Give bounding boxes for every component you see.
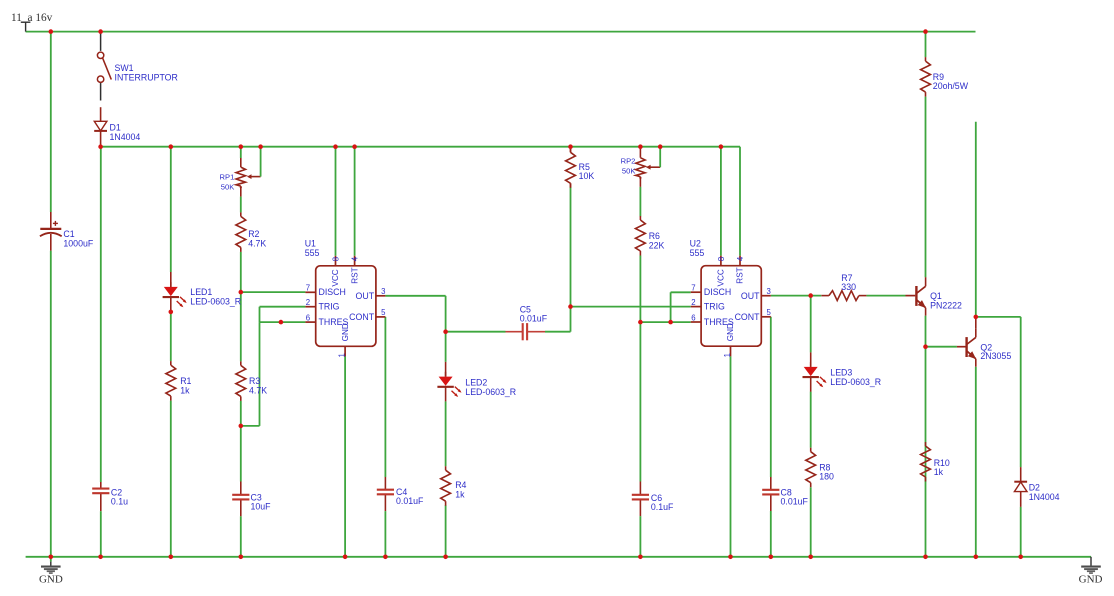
svg-text:R1: R1 bbox=[180, 376, 191, 386]
svg-text:LED1: LED1 bbox=[190, 287, 212, 297]
svg-text:555: 555 bbox=[305, 248, 320, 258]
svg-text:10K: 10K bbox=[579, 171, 595, 181]
svg-text:CONT: CONT bbox=[349, 312, 375, 322]
svg-text:0.01uF: 0.01uF bbox=[520, 314, 548, 324]
svg-text:TRIG: TRIG bbox=[704, 302, 725, 312]
svg-text:330: 330 bbox=[841, 282, 856, 292]
svg-text:RST: RST bbox=[350, 267, 359, 283]
svg-text:R3: R3 bbox=[249, 376, 260, 386]
svg-text:1: 1 bbox=[337, 353, 346, 357]
svg-text:INTERRUPTOR: INTERRUPTOR bbox=[115, 73, 178, 83]
svg-text:8: 8 bbox=[717, 257, 726, 261]
svg-text:RST: RST bbox=[736, 267, 745, 283]
svg-text:50K: 50K bbox=[221, 183, 235, 192]
svg-text:7: 7 bbox=[691, 284, 695, 293]
svg-text:0.1uF: 0.1uF bbox=[651, 502, 674, 512]
svg-text:6: 6 bbox=[691, 313, 695, 322]
svg-text:VCC: VCC bbox=[331, 269, 340, 286]
svg-text:4: 4 bbox=[736, 256, 745, 261]
svg-text:1N4004: 1N4004 bbox=[1029, 492, 1060, 502]
svg-text:PN2222: PN2222 bbox=[930, 300, 962, 310]
svg-text:2N3055: 2N3055 bbox=[980, 351, 1011, 361]
svg-text:R4: R4 bbox=[455, 480, 466, 490]
svg-text:DISCH: DISCH bbox=[319, 287, 346, 297]
svg-text:2: 2 bbox=[691, 298, 695, 307]
svg-text:GND: GND bbox=[39, 574, 63, 586]
svg-text:1k: 1k bbox=[180, 386, 190, 396]
svg-text:7: 7 bbox=[306, 284, 310, 293]
svg-text:1k: 1k bbox=[455, 489, 465, 499]
svg-text:8: 8 bbox=[331, 257, 340, 261]
svg-text:D1: D1 bbox=[110, 122, 121, 132]
svg-text:0.01uF: 0.01uF bbox=[396, 496, 424, 506]
svg-text:CONT: CONT bbox=[735, 312, 761, 322]
svg-text:4: 4 bbox=[351, 256, 360, 261]
svg-text:RP2: RP2 bbox=[621, 157, 636, 166]
svg-text:LED-0603_R: LED-0603_R bbox=[830, 377, 881, 387]
svg-text:3: 3 bbox=[381, 287, 385, 296]
svg-text:50K: 50K bbox=[622, 167, 636, 176]
svg-text:4.7K: 4.7K bbox=[248, 239, 266, 249]
svg-text:180: 180 bbox=[819, 472, 834, 482]
svg-text:5: 5 bbox=[767, 308, 772, 317]
svg-text:R2: R2 bbox=[248, 229, 259, 239]
svg-text:DISCH: DISCH bbox=[704, 287, 731, 297]
svg-text:VCC: VCC bbox=[717, 269, 726, 286]
svg-text:RP1: RP1 bbox=[220, 173, 235, 182]
svg-text:20oh/5W: 20oh/5W bbox=[933, 81, 969, 91]
svg-text:555: 555 bbox=[690, 248, 705, 258]
svg-text:1N4004: 1N4004 bbox=[110, 132, 141, 142]
svg-text:0.01uF: 0.01uF bbox=[781, 496, 809, 506]
svg-text:D2: D2 bbox=[1029, 482, 1040, 492]
svg-text:GND: GND bbox=[341, 323, 350, 341]
svg-text:GND: GND bbox=[1079, 574, 1103, 586]
svg-text:LED3: LED3 bbox=[830, 367, 852, 377]
svg-text:4.7K: 4.7K bbox=[249, 386, 267, 396]
svg-text:11_a 16v: 11_a 16v bbox=[11, 12, 53, 24]
svg-text:LED-0603_R: LED-0603_R bbox=[190, 296, 241, 306]
svg-text:6: 6 bbox=[306, 313, 310, 322]
svg-text:1k: 1k bbox=[934, 467, 944, 477]
svg-text:1: 1 bbox=[723, 353, 732, 357]
svg-text:5: 5 bbox=[381, 308, 386, 317]
svg-text:GND: GND bbox=[726, 323, 735, 341]
svg-text:TRIG: TRIG bbox=[319, 302, 340, 312]
svg-text:22K: 22K bbox=[649, 241, 665, 251]
svg-text:1000uF: 1000uF bbox=[63, 238, 93, 248]
svg-text:LED2: LED2 bbox=[465, 377, 487, 387]
svg-text:C1: C1 bbox=[63, 229, 74, 239]
svg-text:10uF: 10uF bbox=[251, 502, 272, 512]
svg-text:2: 2 bbox=[306, 298, 310, 307]
svg-text:OUT: OUT bbox=[741, 291, 760, 301]
svg-text:3: 3 bbox=[767, 287, 771, 296]
svg-text:SW1: SW1 bbox=[115, 63, 134, 73]
svg-text:OUT: OUT bbox=[356, 291, 375, 301]
svg-text:0.1u: 0.1u bbox=[111, 497, 128, 507]
svg-text:LED-0603_R: LED-0603_R bbox=[465, 387, 516, 397]
